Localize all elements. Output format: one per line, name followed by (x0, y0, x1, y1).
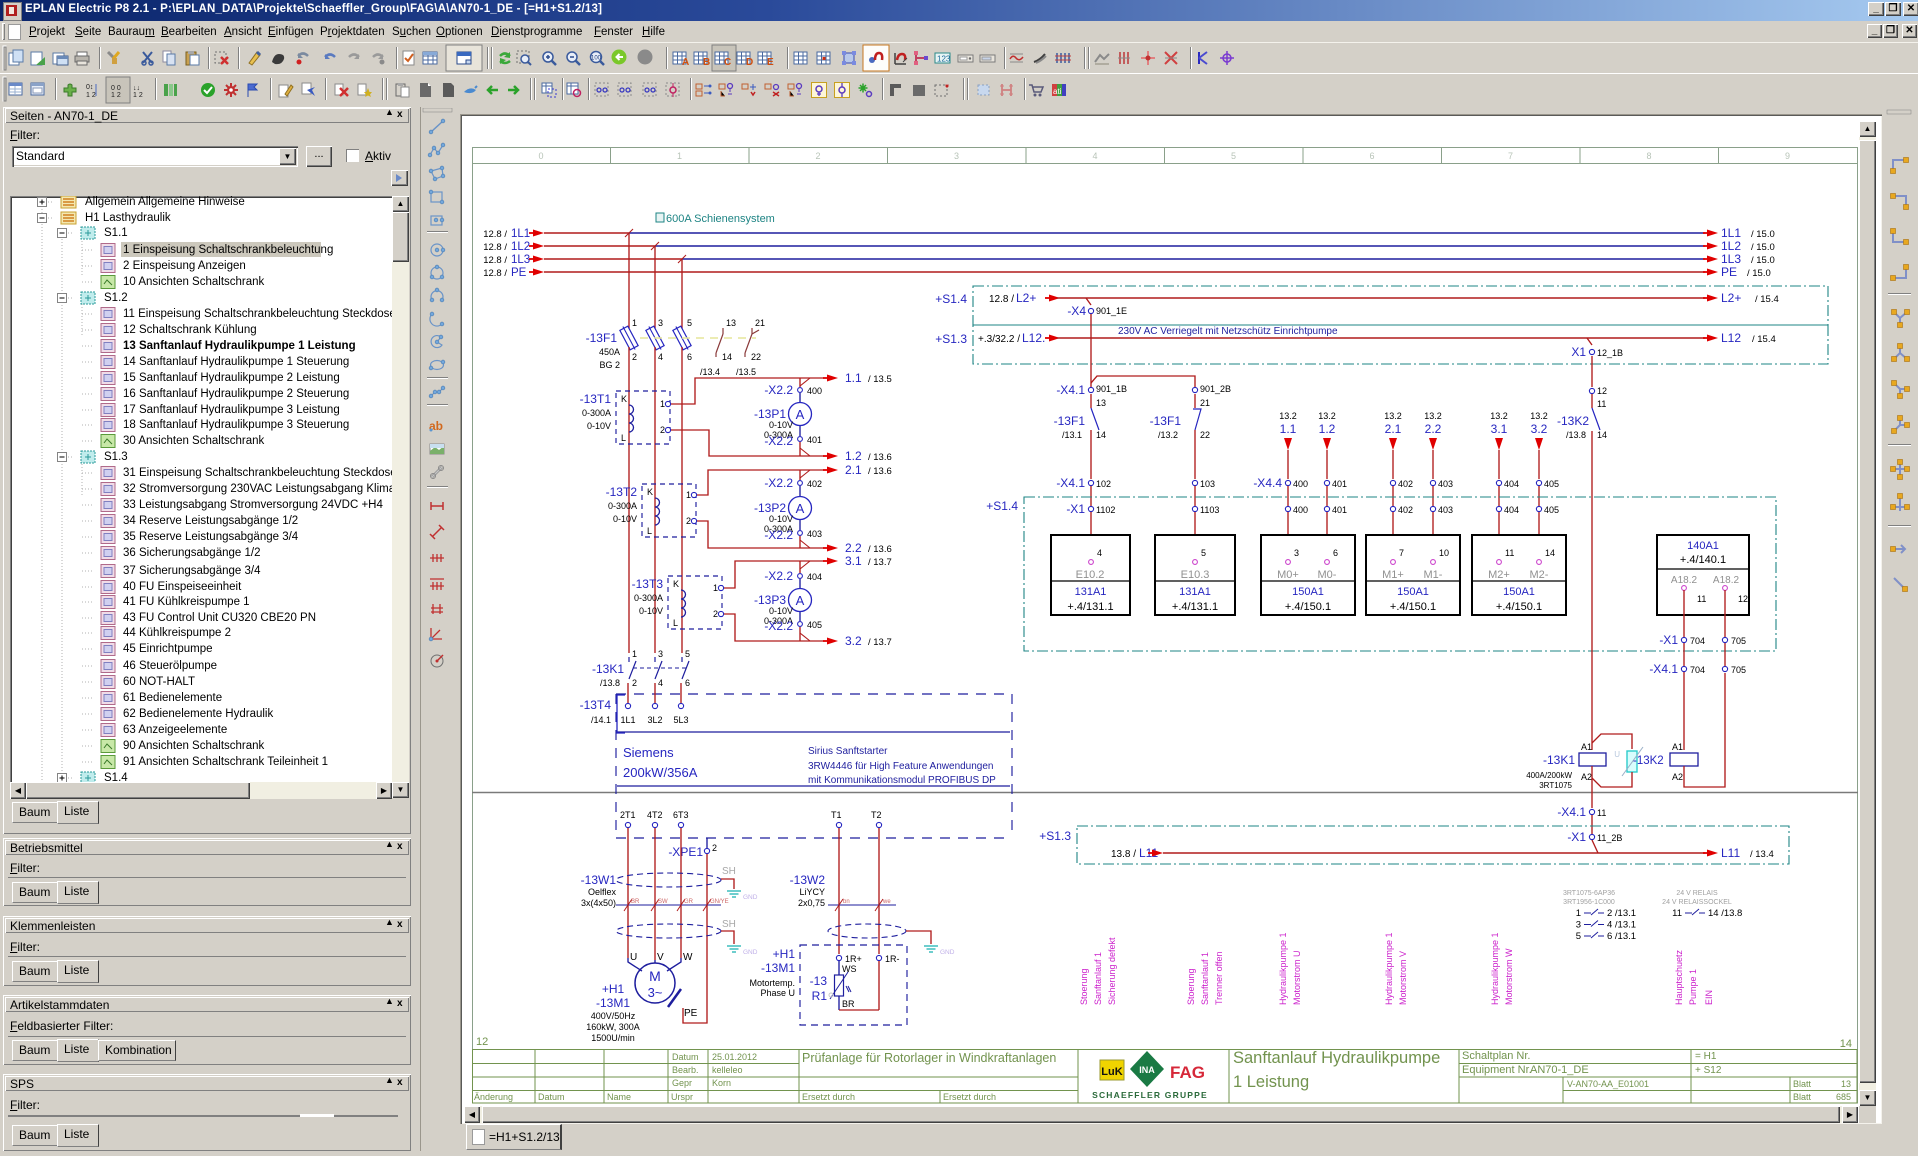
svg-text:401: 401 (1332, 505, 1347, 515)
svg-text:150A1: 150A1 (1503, 586, 1535, 598)
svg-text:-13M1: -13M1 (596, 996, 630, 1010)
svg-text:-13T3: -13T3 (632, 577, 664, 591)
svg-text:A2: A2 (1672, 772, 1683, 782)
title block plan number (1462, 1050, 1851, 1102)
svg-text:Prüfanlage für Rotorlager in W: Prüfanlage für Rotorlager in Windkraftan… (802, 1051, 1056, 1065)
svg-text:3RT1075: 3RT1075 (1539, 781, 1572, 790)
svg-text:M2-: M2- (1530, 569, 1549, 581)
svg-text:Name: Name (607, 1092, 631, 1102)
terminal -X2.2:401 (764, 434, 822, 456)
svg-text:1: 1 (713, 583, 718, 593)
PLC box E10.3 131A1 (1155, 535, 1235, 615)
svg-text:LuK: LuK (1101, 1066, 1122, 1078)
svg-text:13.2: 13.2 (1279, 411, 1297, 421)
svg-text:5: 5 (1231, 151, 1236, 161)
svg-text:+ S12: + S12 (1695, 1065, 1722, 1076)
fuse -13F1 (3-pole switch-fuse) (586, 318, 692, 370)
svg-text:/13.8: /13.8 (600, 678, 620, 688)
svg-text:+.4/131.1: +.4/131.1 (1172, 601, 1218, 613)
wire -13T3 terminal 1 to arrow (724, 558, 838, 589)
svg-text:102: 102 (1096, 479, 1111, 489)
wire -13T3 terminal 2 to arrow (724, 614, 838, 645)
svg-text:14: 14 (1597, 430, 1607, 440)
terminal -X2.2:400 (764, 378, 822, 397)
bus 1L2 (483, 239, 1775, 253)
svg-text:12.8 /: 12.8 / (989, 294, 1014, 305)
svg-text:1: 1 (677, 151, 682, 161)
svg-text:-13T4: -13T4 (580, 698, 612, 712)
terminals -X1 704 705 (1659, 633, 1746, 647)
svg-text:L: L (647, 526, 652, 536)
svg-text:GND: GND (940, 949, 955, 956)
svg-text:1: 1 (1576, 908, 1581, 919)
svg-text:3RW4446 für High Feature Anwen: 3RW4446 für High Feature Anwendungen (808, 761, 994, 772)
svg-text:901_1E: 901_1E (1096, 306, 1127, 316)
svg-text:4 /13.1: 4 /13.1 (1607, 920, 1636, 931)
FAG logo (1170, 1063, 1205, 1082)
svg-text:4: 4 (1097, 548, 1102, 558)
svg-text:2: 2 (713, 609, 718, 619)
svg-text:E: E (767, 57, 774, 68)
svg-text:GND: GND (743, 949, 758, 956)
svg-text:22: 22 (1200, 430, 1210, 440)
svg-text:9: 9 (1785, 151, 1790, 161)
svg-text:E10.2: E10.2 (1076, 569, 1105, 581)
svg-text:6: 6 (685, 678, 690, 688)
svg-text:+.4/150.1: +.4/150.1 (1390, 601, 1436, 613)
svg-text:+S1.3: +S1.3 (1039, 829, 1071, 843)
svg-text:LiYCY: LiYCY (799, 887, 825, 897)
svg-text:7: 7 (1508, 151, 1513, 161)
svg-text:Equipment Nr.: Equipment Nr. (1462, 1064, 1532, 1076)
contactor -13K1 main contacts 1-6 (592, 649, 690, 688)
menu bar (0, 21, 1918, 42)
svg-text:/13.5: /13.5 (736, 367, 756, 377)
source arrow 1.1 from 13.2 (1279, 411, 1297, 479)
svg-text:1: 1 (632, 318, 637, 328)
cable -13W1 Oelflex (581, 873, 729, 911)
potential L12 (978, 326, 1776, 345)
svg-text:X1: X1 (1571, 345, 1586, 359)
terminal -X4:901_1E (1067, 298, 1127, 318)
fuse -13F1 auxiliary contacts 13-14 / 21-22 (700, 318, 765, 377)
svg-text:+.3/32.2 /: +.3/32.2 / (978, 334, 1020, 345)
page number 14 (1840, 1038, 1852, 1050)
soft starter -13T4 (Siemens Sirius) box (580, 694, 1012, 838)
bottom sheet tab (466, 1124, 562, 1150)
svg-text:-X2.2: -X2.2 (764, 434, 793, 448)
svg-text:Datum: Datum (672, 1052, 699, 1062)
svg-text:GR: GR (684, 899, 694, 905)
svg-text:12: 12 (476, 1036, 488, 1048)
svg-text:400V/50Hz: 400V/50Hz (591, 1011, 636, 1021)
svg-text:/13.1: /13.1 (1062, 430, 1082, 440)
svg-text:11: 11 (1505, 548, 1514, 558)
svg-text:901_1B: 901_1B (1096, 384, 1127, 394)
svg-text:2: 2 (632, 678, 637, 688)
svg-text:A: A (682, 57, 689, 68)
svg-text:M0-: M0- (1318, 569, 1337, 581)
svg-text:-13T2: -13T2 (606, 485, 638, 499)
svg-text:6: 6 (1369, 151, 1374, 161)
svg-text:U: U (1614, 750, 1620, 759)
svg-text:Blatt: Blatt (1793, 1079, 1812, 1089)
svg-text:M0+: M0+ (1277, 569, 1299, 581)
svg-text:-13P1: -13P1 (754, 407, 786, 421)
svg-text:-X2.2: -X2.2 (764, 476, 793, 490)
svg-text:-X1: -X1 (1066, 502, 1085, 516)
svg-text:-X4.1: -X4.1 (1056, 476, 1085, 490)
svg-text:1.1: 1.1 (1280, 422, 1297, 436)
svg-text:3RT1956-1C000: 3RT1956-1C000 (1563, 899, 1615, 906)
svg-text:R1: R1 (812, 989, 828, 1003)
svg-text:1: 1 (660, 399, 665, 409)
structure box +S1.4 (PLC) (986, 497, 1776, 651)
svg-text:5: 5 (685, 649, 690, 659)
svg-text:L11: L11 (1721, 846, 1740, 860)
svg-text:14: 14 (1096, 430, 1106, 440)
svg-text:2: 2 (660, 425, 665, 435)
svg-text:404: 404 (1504, 505, 1519, 515)
horizontal page separator (472, 792, 1858, 794)
svg-text:-XPE1: -XPE1 (668, 845, 703, 859)
svg-text:WS: WS (842, 964, 857, 974)
svg-text:↓↓: ↓↓ (133, 85, 140, 92)
svg-text:C: C (724, 57, 731, 68)
svg-text:3.2: 3.2 (845, 634, 862, 648)
svg-text:U: U (630, 952, 637, 963)
fuse aux contact -13F1 13-14 (1054, 394, 1106, 479)
drawing window (460, 114, 1882, 1124)
svg-text:0 0: 0 0 (111, 85, 121, 92)
svg-text:400: 400 (1293, 479, 1308, 489)
source arrow 3.2 from 13.2 (1530, 411, 1548, 479)
svg-text:1500U/min: 1500U/min (591, 1033, 635, 1043)
svg-text:1 Leistung: 1 Leistung (1233, 1073, 1309, 1091)
svg-text:25.01.2012: 25.01.2012 (712, 1052, 757, 1062)
svg-text:405: 405 (1544, 505, 1559, 515)
svg-text:2.2: 2.2 (845, 541, 862, 555)
svg-text:Motortemp.: Motortemp. (749, 978, 795, 988)
thermistor wires from T1 T2 (839, 828, 879, 954)
svg-text:V: V (657, 952, 664, 963)
-13T4 input terminals 1L1 3L2 5L3 (620, 683, 688, 725)
svg-text:1: 1 (632, 649, 637, 659)
svg-text:3: 3 (1294, 548, 1299, 558)
svg-text:ati: ati (1053, 87, 1062, 96)
svg-text:/ 13.6: / 13.6 (868, 466, 892, 477)
svg-text:+.4/150.1: +.4/150.1 (1285, 601, 1331, 613)
svg-text:Schaltplan Nr.: Schaltplan Nr. (1462, 1050, 1530, 1062)
svg-text:L12.: L12. (1022, 331, 1045, 345)
svg-text:3: 3 (658, 318, 663, 328)
svg-text:3L2: 3L2 (647, 715, 662, 725)
svg-text:L2+: L2+ (1721, 291, 1741, 305)
svg-text:-X4.1: -X4.1 (1557, 805, 1586, 819)
svg-text:SCHAEFFLER GRUPPE: SCHAEFFLER GRUPPE (1092, 1090, 1208, 1100)
PLC box E10.2 131A1 (1051, 535, 1130, 615)
svg-text:-13F1: -13F1 (1150, 414, 1182, 428)
svg-text:2: 2 (712, 843, 717, 853)
svg-text:5: 5 (1576, 931, 1581, 942)
svg-text:1L1: 1L1 (1721, 226, 1741, 240)
terminal strip -X1 row (1066, 502, 1559, 560)
svg-text:Gepr: Gepr (672, 1078, 692, 1088)
svg-text:5: 5 (687, 318, 692, 328)
svg-text:/ 15.4: / 15.4 (1752, 334, 1776, 345)
svg-text:Sicherung defekt: Sicherung defekt (1107, 937, 1117, 1005)
svg-text:BR: BR (842, 999, 855, 1009)
node arrow 3.1 (845, 554, 892, 568)
svg-text:T1: T1 (831, 810, 842, 820)
svg-text:2: 2 (686, 516, 691, 526)
svg-text:200kW/356A: 200kW/356A (623, 765, 698, 780)
svg-text:230V AC Verriegelt mit Netzsch: 230V AC Verriegelt mit Netzschütz Einric… (1118, 326, 1338, 337)
svg-text:6: 6 (1333, 548, 1338, 558)
svg-text:11: 11 (1597, 399, 1606, 409)
svg-text:M1+: M1+ (1382, 569, 1404, 581)
svg-text:/ 15.0: / 15.0 (1751, 229, 1775, 240)
svg-text:-13M1: -13M1 (761, 961, 795, 975)
terminal 901_2B (1192, 384, 1231, 408)
svg-text:0-10V: 0-10V (613, 514, 637, 524)
svg-text:140A1: 140A1 (1687, 540, 1719, 552)
svg-text:11: 11 (1697, 594, 1706, 604)
shield earth wire 2 (721, 931, 758, 956)
svg-text:704: 704 (1690, 665, 1705, 675)
svg-text:= H1: = H1 (1695, 1051, 1717, 1062)
ammeter -13P2 (754, 486, 812, 534)
svg-text:150A1: 150A1 (1397, 586, 1429, 598)
svg-text:402: 402 (1398, 479, 1413, 489)
svg-text:2: 2 (815, 151, 820, 161)
svg-text:24 V RELAIS: 24 V RELAIS (1676, 890, 1718, 897)
source arrow 1.2 from 13.2 (1318, 411, 1336, 479)
svg-text:-13: -13 (810, 974, 828, 988)
node arrow 1.1 (845, 371, 892, 385)
svg-text:K: K (621, 394, 627, 404)
svg-text:/ 13.5: / 13.5 (868, 374, 892, 385)
svg-text:405: 405 (1544, 479, 1559, 489)
svg-text:0-10V: 0-10V (769, 606, 793, 616)
svg-text:401: 401 (1332, 479, 1347, 489)
title block (472, 1050, 1857, 1104)
svg-text:Siemens: Siemens (623, 745, 674, 760)
svg-text:+.4/131.1: +.4/131.1 (1067, 601, 1113, 613)
svg-text:3x(4x50): 3x(4x50) (581, 898, 616, 908)
svg-text:1L3: 1L3 (511, 254, 530, 266)
svg-text:K: K (673, 579, 679, 589)
terminals -X4.1 704 705 (1649, 662, 1746, 676)
svg-text:3~: 3~ (648, 985, 663, 1000)
svg-text:/ 13.7: / 13.7 (868, 557, 892, 568)
svg-text:2x0,75: 2x0,75 (798, 898, 825, 908)
terminal -X4.1:901_1B (1056, 383, 1127, 408)
bus 1L1 (483, 226, 1775, 240)
svg-text:131A1: 131A1 (1075, 586, 1107, 598)
svg-text:Pumpe 1: Pumpe 1 (1688, 969, 1698, 1005)
source arrow 2.2 from 13.2 (1424, 411, 1442, 479)
svg-text:402: 402 (807, 479, 822, 489)
svg-text:Blatt: Blatt (1793, 1092, 1812, 1102)
svg-text:600A Schienensystem: 600A Schienensystem (666, 213, 775, 225)
svg-text:21: 21 (1200, 398, 1210, 408)
svg-text:-13P2: -13P2 (754, 501, 786, 515)
svg-text:SH: SH (722, 866, 736, 877)
svg-text:2: 2 (632, 352, 637, 362)
svg-text:4: 4 (658, 678, 663, 688)
svg-text:0: 0 (538, 151, 543, 161)
svg-text:11_2B: 11_2B (1597, 833, 1622, 843)
svg-text:2T1: 2T1 (620, 810, 636, 820)
-13T4 output terminals 2T1 4T2 6T3 T1 T2 (620, 810, 882, 828)
svg-text:/ 13.7: / 13.7 (868, 637, 892, 648)
svg-text:+H1: +H1 (773, 947, 796, 961)
svg-text:404: 404 (807, 572, 822, 582)
wire -13T1 terminal 1 to arrow (671, 375, 838, 405)
bus 1L3 (483, 252, 1775, 266)
svg-text:7: 7 (1399, 548, 1404, 558)
svg-text:Hauptschuetz: Hauptschuetz (1674, 949, 1684, 1005)
Siemens type labels (623, 745, 996, 786)
wire drops from bus to fuse (629, 233, 682, 329)
svg-text:13.8 /: 13.8 / (1111, 849, 1136, 860)
svg-text:Trenner offen: Trenner offen (1214, 951, 1224, 1005)
thermistor box +H1 -13M1 (749, 945, 907, 1025)
motor -13M1 (586, 952, 697, 1043)
svg-text:12.8 /: 12.8 / (483, 268, 507, 279)
LuK logo (1100, 1060, 1124, 1080)
svg-text:13.2: 13.2 (1490, 411, 1508, 421)
svg-text:+S1.3: +S1.3 (935, 332, 967, 346)
svg-text:L: L (621, 433, 626, 443)
svg-text:GND: GND (743, 894, 758, 901)
svg-text:705: 705 (1731, 665, 1746, 675)
svg-text:3: 3 (658, 649, 663, 659)
svg-text:401: 401 (807, 435, 822, 445)
svg-text:W: W (683, 952, 693, 963)
svg-text:-13K1: -13K1 (592, 662, 624, 676)
svg-text:/ 15.0: / 15.0 (1751, 242, 1775, 253)
svg-text:M: M (649, 968, 661, 984)
svg-text:6T3: 6T3 (673, 810, 689, 820)
svg-text:BR: BR (631, 899, 640, 905)
svg-text:13: 13 (1841, 1079, 1851, 1089)
svg-text:402: 402 (1398, 505, 1413, 515)
svg-text:-X1: -X1 (1567, 830, 1586, 844)
thermistor -13R1 (810, 961, 879, 1010)
terminal X1:12_1B (1571, 338, 1623, 359)
svg-text:1.2: 1.2 (845, 449, 862, 463)
svg-text:E10.3: E10.3 (1181, 569, 1210, 581)
svg-text:1 2: 1 2 (111, 92, 121, 99)
contactor coil -13K1 (1526, 742, 1606, 808)
svg-text:/13.4: /13.4 (700, 367, 720, 377)
svg-text:FAG: FAG (1170, 1063, 1205, 1082)
svg-text:0-300A: 0-300A (634, 593, 663, 603)
PE wire to motor (683, 854, 707, 1023)
svg-text:we: we (882, 899, 891, 905)
svg-text:400: 400 (807, 386, 822, 396)
svg-text:0-10V: 0-10V (639, 606, 663, 616)
svg-text:12.8 /: 12.8 / (483, 242, 507, 253)
svg-text:Motorstrom U: Motorstrom U (1292, 950, 1302, 1005)
svg-text:685: 685 (1836, 1092, 1851, 1102)
contact mirror -13K1 (1563, 890, 1636, 942)
INA logo (1130, 1051, 1164, 1087)
structure box +S1.4 (top) (935, 286, 1828, 325)
svg-text:kelleleo: kelleleo (712, 1065, 743, 1075)
svg-text:-X2.2: -X2.2 (764, 383, 793, 397)
svg-text:/ 15.0: / 15.0 (1751, 255, 1775, 266)
svg-text:-X2.2: -X2.2 (764, 528, 793, 542)
wire A18.2:11 down (1683, 590, 1685, 750)
potential L11 (1111, 840, 1774, 860)
ammeter -13P1 (754, 393, 812, 440)
svg-text:1L2: 1L2 (511, 241, 530, 253)
svg-text:Hydraulikpumpe 1: Hydraulikpumpe 1 (1384, 932, 1394, 1005)
svg-text:Sanftanlauf Hydraulikpumpe: Sanftanlauf Hydraulikpumpe (1233, 1049, 1440, 1067)
svg-text:Änderung: Änderung (474, 1092, 513, 1102)
page number 12 (476, 1036, 488, 1048)
shield earth wire 3 (906, 931, 955, 956)
terminal -X4.1:11 (1557, 805, 1606, 834)
svg-text:-X2.2: -X2.2 (764, 569, 793, 583)
svg-text:Stoerung: Stoerung (1079, 968, 1089, 1005)
svg-text:13.2: 13.2 (1384, 411, 1402, 421)
svg-text:/ 15.4: / 15.4 (1755, 294, 1779, 305)
svg-text:-13K2: -13K2 (1633, 755, 1664, 767)
svg-text:-X2.2: -X2.2 (764, 619, 793, 633)
terminal -XPE1 (668, 838, 717, 859)
svg-text:Ersetzt durch: Ersetzt durch (943, 1092, 996, 1102)
svg-text:403: 403 (807, 529, 822, 539)
svg-text:6 /13.1: 6 /13.1 (1607, 931, 1636, 942)
svg-text:1L2: 1L2 (1721, 239, 1741, 253)
svg-text:14: 14 (1545, 548, 1555, 558)
svg-text:Bearb.: Bearb. (672, 1065, 699, 1075)
svg-text:3.1: 3.1 (845, 554, 862, 568)
svg-text:1103: 1103 (1200, 505, 1219, 515)
svg-text:-13P3: -13P3 (754, 593, 786, 607)
PLC box 140A1 A18.2 (1657, 535, 1749, 615)
terminal -X2.2:404 (764, 561, 822, 583)
svg-text:2 /13.1: 2 /13.1 (1607, 908, 1636, 919)
svg-text:Motorstrom W: Motorstrom W (1504, 948, 1514, 1005)
svg-text:4: 4 (1092, 151, 1097, 161)
busbar label 600A Schienensystem (656, 213, 775, 225)
svg-text:4: 4 (658, 352, 663, 362)
toolbars (0, 42, 1918, 74)
svg-text:10: 10 (1439, 548, 1449, 558)
svg-text:12: 12 (1597, 386, 1607, 396)
svg-text:4T2: 4T2 (647, 810, 663, 820)
bus PE (483, 265, 1771, 279)
svg-text:M2+: M2+ (1488, 569, 1510, 581)
svg-text:5: 5 (1201, 548, 1206, 558)
cable -13W1 shield (616, 866, 736, 938)
structure box +S1.3 (top) (935, 325, 1828, 364)
shield earth wire 1 (721, 879, 758, 901)
svg-text:Korn: Korn (712, 1078, 731, 1088)
svg-text:+S1.4: +S1.4 (986, 499, 1018, 513)
Schaeffler Gruppe (1092, 1090, 1208, 1100)
fuse trip linkage (dashed yellow) (640, 337, 756, 339)
svg-text:Datum: Datum (538, 1092, 565, 1102)
cable -13W2 LiYCY (790, 873, 906, 938)
svg-text:M1-: M1- (1424, 569, 1443, 581)
node arrow 3.2 (845, 634, 892, 648)
